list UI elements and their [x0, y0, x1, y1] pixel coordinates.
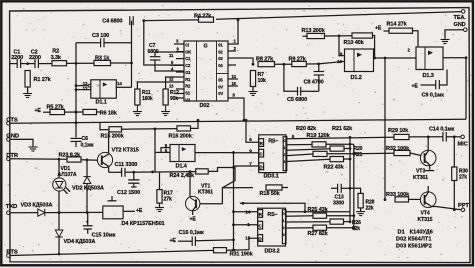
- svg-text:S1: S1: [185, 90, 191, 95]
- transistor VT2 body: [97, 152, 112, 167]
- wire C8 top: [318, 64, 320, 71]
- node R5R6: [75, 111, 78, 114]
- svg-text:C14 0,1мк: C14 0,1мк: [429, 127, 455, 133]
- wire DD3.1 pin9: [234, 152, 259, 154]
- resistor R30 vertical: [452, 167, 457, 181]
- wire D1.2 output: [374, 57, 417, 59]
- svg-text:R23 8,2k: R23 8,2k: [59, 153, 82, 159]
- diode VD3: [38, 209, 45, 216]
- svg-text:3300: 3300: [333, 200, 344, 206]
- wire +E to R14: [384, 30, 390, 32]
- resistor R25: [313, 213, 327, 218]
- svg-text:GND: GND: [454, 22, 466, 28]
- wire R13 left stub: [303, 35, 308, 37]
- svg-text:CTS: CTS: [6, 117, 18, 123]
- wire R5 to R6: [65, 111, 84, 113]
- wire R30 bottom: [453, 181, 455, 210]
- resistor R13: [307, 33, 325, 38]
- resistor R17 vertical: [157, 190, 162, 204]
- svg-text:G: G: [204, 44, 208, 50]
- wire DD3.2 pin14: [234, 211, 258, 213]
- resistor R27: [313, 225, 327, 230]
- ground R17: [159, 206, 161, 208]
- op-amp U D1.4 body: [170, 145, 195, 162]
- resistor R26: [330, 219, 344, 224]
- wire DD3.1 out row5: [287, 159, 330, 161]
- svg-text:13: 13: [83, 81, 88, 86]
- wire R24 right elbow: [208, 168, 233, 172]
- capacitor C16: [191, 236, 193, 246]
- svg-text:C8 4700: C8 4700: [304, 79, 324, 85]
- resistor R23: [67, 157, 81, 162]
- svg-text:+E: +E: [190, 217, 197, 223]
- wire D02 pin r98 down: [228, 98, 244, 120]
- svg-text:R4 27k: R4 27k: [194, 13, 212, 19]
- node B: [130, 62, 133, 65]
- svg-text:R16 200k: R16 200k: [169, 134, 193, 140]
- svg-text:G1: G1: [185, 70, 191, 75]
- transistor VT3 collector: [425, 137, 428, 156]
- svg-text:KT315: KT315: [418, 217, 433, 223]
- svg-text:OK: OK: [185, 49, 191, 54]
- wire R3 to node B: [111, 62, 132, 64]
- wire column A down: [75, 63, 77, 112]
- wire R8 to R9: [275, 63, 292, 65]
- wire +E to R5: [43, 111, 50, 113]
- transistor VT2 emitter: [102, 162, 109, 172]
- transistor VT3 body: [420, 150, 436, 166]
- wire R7 bottom: [252, 87, 254, 91]
- wire D1.4 pin5 stub: [155, 151, 170, 153]
- ic DD3.1 out column: [283, 137, 287, 171]
- svg-text:KT361: KT361: [413, 175, 428, 181]
- resistor R2: [52, 61, 67, 66]
- wire column x385: [384, 58, 386, 200]
- node B2: [317, 63, 320, 66]
- svg-text:C12 1500: C12 1500: [117, 190, 140, 196]
- capacitor C9: [435, 80, 437, 89]
- wire fb down to pin9: [339, 36, 345, 56]
- terminal GND top: [464, 28, 468, 32]
- svg-text:1: 1: [283, 219, 285, 223]
- svg-text:R24 2,45k: R24 2,45k: [170, 173, 196, 179]
- ground top right: [444, 38, 446, 40]
- svg-text:VD3 КД503А: VD3 КД503А: [21, 203, 53, 209]
- svg-text:D4 КР1157ЕН501: D4 КР1157ЕН501: [122, 221, 165, 227]
- svg-text:D1.1: D1.1: [96, 99, 107, 105]
- svg-text:C9 0,1мк: C9 0,1мк: [422, 92, 445, 98]
- svg-text:2200: 2200: [29, 55, 41, 61]
- svg-text:90k: 90k: [170, 96, 178, 102]
- wire D02 pin stub y44: [174, 43, 184, 45]
- resistor R29: [394, 134, 409, 139]
- node A: [75, 62, 78, 65]
- wire DD3.1 out pin5 row: [287, 137, 394, 139]
- svg-text:C15 10мк: C15 10мк: [92, 233, 116, 239]
- wire D4 out: [123, 210, 135, 212]
- wire VD2 column top: [86, 160, 88, 177]
- svg-text:10k: 10k: [258, 78, 266, 84]
- resistor R8: [258, 62, 275, 67]
- terminal TEA: [461, 10, 465, 14]
- wire C13 left stub: [331, 187, 337, 189]
- wire +E to C16: [178, 240, 192, 242]
- diode VD4: [55, 230, 63, 237]
- wire y203 horizontal: [240, 203, 305, 211]
- op-amp U D1.1 body: [91, 80, 117, 98]
- wire DD3.2 out row1: [286, 211, 350, 213]
- wire column x155: [154, 129, 156, 172]
- svg-text:62k: 62k: [352, 226, 360, 232]
- svg-text:C2: C2: [185, 63, 191, 68]
- svg-text:D1.4: D1.4: [176, 164, 188, 170]
- svg-text:6800: 6800: [148, 49, 159, 55]
- wire D02 pin stub y65.3: [170, 64, 184, 66]
- transistor VT4 emitter: [425, 202, 461, 210]
- wire R29 to C14: [409, 136, 443, 138]
- svg-text:2: 2: [283, 153, 285, 157]
- svg-text:R10 40k: R10 40k: [344, 40, 365, 46]
- wire D02 pin stub r65: [228, 64, 236, 66]
- svg-text:R25 43k: R25 43k: [308, 207, 329, 213]
- resistor R10: [352, 33, 373, 38]
- wire D02 pin1 up to rail: [228, 20, 238, 44]
- capacitor C15: [83, 225, 93, 227]
- svg-text:160k: 160k: [142, 96, 153, 102]
- wire DD3.1 pin7: [222, 166, 258, 188]
- svg-text:2200: 2200: [11, 55, 23, 61]
- wire bus x353.8: [353, 144, 355, 227]
- svg-text:TXD: TXD: [6, 204, 17, 210]
- wire D1.4 pin6 stub: [161, 148, 170, 153]
- ic DD3.2 body: [258, 208, 286, 246]
- resistor R3: [94, 60, 111, 65]
- svg-text:D03 К561ИР2: D03 К561ИР2: [396, 244, 432, 250]
- wire R17 top: [159, 172, 161, 190]
- wire R33 to VT4 base: [409, 198, 421, 200]
- svg-text:VT3: VT3: [416, 169, 425, 175]
- wire DD3.2 pin1: [234, 224, 258, 226]
- transistor VT4 collector: [425, 186, 428, 198]
- node C4-R4 junction: [142, 19, 145, 22]
- wire D1.1 upper input: [76, 85, 88, 87]
- ground R7: [252, 90, 254, 92]
- ground C12: [133, 185, 135, 187]
- svg-text:+E: +E: [35, 108, 42, 114]
- wire VT2 emitter to C11: [109, 171, 122, 173]
- wire DD3.1 out row2: [287, 144, 312, 146]
- wire VD4 to RTS: [58, 237, 60, 255]
- ic DD3.1 pin box D: [259, 163, 264, 170]
- svg-text:DD3.2: DD3.2: [265, 248, 280, 254]
- svg-text:C16 0,1мк: C16 0,1мк: [179, 230, 205, 236]
- wire +E to C9: [421, 84, 436, 86]
- wire R16 right up: [191, 120, 199, 128]
- wire R28 bottom: [360, 208, 362, 211]
- wire C8 down: [318, 75, 320, 91]
- resistor R12 vertical: [163, 89, 168, 105]
- resistor R7 vertical: [250, 71, 255, 87]
- svg-text:R6 18k: R6 18k: [100, 111, 118, 117]
- wire C16 to column: [196, 239, 234, 242]
- resistor R15: [109, 127, 122, 132]
- svg-text:D1.3: D1.3: [423, 73, 434, 79]
- wire node B column: [131, 21, 133, 88]
- wire C2 to R2: [38, 63, 52, 65]
- capacitor C6: [71, 137, 82, 139]
- svg-text:0V: 0V: [218, 91, 223, 96]
- wire C9 right up: [440, 70, 448, 86]
- wire D1.3 output: [443, 57, 466, 59]
- transistor VT1 body: [186, 196, 200, 210]
- wire up to DD3.2 pin15: [249, 238, 258, 250]
- svg-text:12: 12: [83, 86, 88, 91]
- svg-text:DTR: DTR: [6, 153, 19, 159]
- wire CTS line corner up to D1.3 out: [465, 58, 467, 119]
- wire C13 to bus: [341, 187, 350, 189]
- resistor R21h: [313, 151, 327, 156]
- capacitor C13: [337, 184, 339, 193]
- wire frame to C1: [10, 63, 17, 65]
- wire GND to ground: [10, 139, 33, 146]
- svg-text:R27 82k: R27 82k: [308, 231, 329, 237]
- led VD1 arrows: [64, 190, 68, 194]
- svg-text:TEA.: TEA.: [454, 15, 467, 21]
- svg-text:R33 100k: R33 100k: [386, 192, 410, 198]
- terminal DTR: [7, 157, 11, 161]
- resistor R6: [83, 109, 97, 114]
- capacitor C12: [128, 179, 139, 181]
- svg-text:R8 27k: R8 27k: [256, 57, 274, 63]
- node A2: [283, 63, 286, 66]
- wire top rail R4 to TEA terminal: [216, 12, 461, 20]
- wire DD3.2 out row2: [286, 215, 313, 217]
- wire R19 to bus: [326, 143, 354, 145]
- wire D02 pin stub y72: [176, 71, 184, 73]
- resistor R32: [394, 150, 410, 155]
- wire R14 right down: [413, 31, 419, 47]
- svg-text:RS–: RS–: [267, 212, 277, 218]
- wire R1 bottom: [27, 87, 29, 93]
- ground R1: [27, 92, 29, 94]
- wire RTS long: [10, 250, 214, 255]
- capacitor C2: [34, 59, 36, 68]
- resistor R24: [196, 169, 209, 174]
- svg-text:D02: D02: [200, 103, 210, 109]
- ic D02 left divider: [196, 41, 198, 101]
- ic D02 body: [184, 41, 228, 101]
- capacitor C14: [442, 132, 444, 142]
- wire D02 pin stub y51.6: [176, 51, 184, 53]
- wire R15 left: [100, 123, 109, 130]
- wire R10 to output col: [373, 36, 375, 59]
- svg-text:DD3.1: DD3.1: [264, 173, 279, 179]
- ic DD3.2 pin box C: [258, 221, 263, 229]
- wire DTR to R23: [10, 158, 67, 161]
- svg-text:VT2 KT315: VT2 KT315: [112, 148, 139, 154]
- resistor R20h: [330, 146, 344, 151]
- wire C1 to C2: [21, 63, 35, 65]
- wire D02 pin stub y82 R11: [137, 82, 184, 89]
- wire R30 top: [453, 137, 455, 167]
- wire R22 to bus: [344, 158, 351, 160]
- wire VD2 to TXD: [86, 184, 88, 213]
- resistor R33: [395, 197, 409, 202]
- wire D02 pin stub y52: [155, 51, 184, 53]
- wire D02 pin stub y77 R12: [166, 77, 184, 89]
- svg-text:+E: +E: [170, 238, 177, 244]
- node VD1 top: [58, 158, 61, 161]
- wire B2 to D1.2 pin10: [319, 61, 345, 64]
- svg-text:+E: +E: [136, 208, 143, 214]
- svg-text:V2: V2: [185, 97, 191, 102]
- wire R27 to bus: [327, 227, 354, 229]
- terminal CTS: [7, 122, 11, 126]
- wire C3 top right: [105, 42, 132, 44]
- diode VD2: [83, 177, 90, 184]
- transistor VT4 body: [420, 192, 436, 208]
- svg-text:CI: CI: [185, 43, 189, 48]
- terminal GND left: [7, 138, 11, 142]
- terminal MIC: [461, 135, 465, 139]
- wire D02 pin C4 col: [144, 21, 184, 65]
- wire VT1 base: [200, 203, 223, 205]
- svg-text:0V: 0V: [218, 84, 223, 89]
- svg-text:D1.2: D1.2: [351, 75, 362, 81]
- wire D02 pin stub y93: [176, 93, 184, 95]
- svg-text:R29 10k: R29 10k: [388, 128, 409, 134]
- svg-text:D02 К564ЛТ1: D02 К564ЛТ1: [396, 237, 432, 243]
- wire D02 pin stub y58: [176, 58, 184, 60]
- svg-text:R1 27k: R1 27k: [34, 77, 52, 83]
- wire R26 to bus: [344, 221, 351, 223]
- wire VT1 base up to R18: [222, 188, 253, 204]
- wire C3 top left: [76, 42, 100, 44]
- svg-text:R3 1k: R3 1k: [95, 56, 110, 62]
- svg-text:3: 3: [283, 233, 285, 237]
- svg-text:R20: R20: [354, 146, 363, 152]
- svg-text:VD4 КД503А: VD4 КД503А: [64, 239, 96, 245]
- capacitor C7: [150, 56, 161, 58]
- wire bus to R32: [354, 152, 394, 155]
- ic DD3.1 pin box R: [259, 139, 264, 147]
- wire C11 to R24 row: [125, 171, 196, 174]
- svg-text:+: +: [86, 219, 89, 224]
- svg-text:C5 6800: C5 6800: [287, 97, 307, 103]
- svg-text:KT361: KT361: [198, 190, 213, 196]
- ground R28: [360, 210, 362, 212]
- resistor R18: [266, 185, 282, 190]
- svg-text:R31 190k: R31 190k: [230, 251, 254, 257]
- svg-text:0: 0: [283, 212, 285, 216]
- terminal PPT: [461, 208, 465, 212]
- ground left: [32, 145, 34, 147]
- wire DD3.2 out row3: [286, 221, 330, 223]
- wire node R5R6 down to C6: [75, 112, 77, 137]
- resistor R5: [50, 109, 65, 114]
- wire bus x350: [349, 137, 351, 221]
- wire R18 right: [282, 187, 288, 189]
- wire DD3.2 out row4: [286, 227, 313, 229]
- wire R15 to R16: [122, 128, 178, 131]
- ic DD3.1 pin box C: [259, 149, 264, 157]
- svg-text:R15 200k: R15 200k: [101, 134, 125, 140]
- wire C12 column: [133, 172, 135, 180]
- wire VD3 to D4: [45, 211, 103, 213]
- wire C14 to MIC: [446, 136, 461, 138]
- capacitor C8: [314, 71, 324, 73]
- wire C6 bottom stub: [75, 142, 77, 148]
- svg-text:R14 27k: R14 27k: [387, 21, 408, 27]
- svg-text:10: 10: [337, 59, 342, 64]
- wire top rail C4 junction to R4: [144, 19, 199, 22]
- wire C12 bottom: [133, 183, 135, 185]
- wire R9 to D1.2: [306, 63, 318, 65]
- terminal TXD: [7, 211, 11, 215]
- capacitor C5: [297, 87, 299, 96]
- svg-text:27k: 27k: [164, 197, 172, 203]
- capacitor C3: [100, 38, 102, 47]
- scan speckle texture: [301, 9, 304, 12]
- svg-text:PPT: PPT: [458, 203, 469, 209]
- svg-text:АЛ107А: АЛ107А: [58, 172, 77, 178]
- ground stray mark: [111, 196, 113, 201]
- wire GND terminal to ground: [445, 30, 464, 38]
- svg-text:RTS: RTS: [6, 250, 18, 256]
- wire D02 pin stub r79: [228, 78, 238, 80]
- led VD1 body: [53, 178, 66, 191]
- wire VD1 to VD4: [58, 191, 60, 230]
- svg-text:R2: R2: [52, 48, 59, 54]
- node mid R15R16: [154, 127, 157, 130]
- svg-text:R9 27k: R9 27k: [289, 56, 307, 62]
- svg-text:R7: R7: [258, 72, 265, 78]
- resistor R9: [292, 61, 307, 66]
- wire R28 top: [350, 188, 361, 193]
- wire DD3.1 out row3: [287, 149, 330, 151]
- svg-text:R32 100k: R32 100k: [386, 146, 410, 152]
- wire DD3.1 out row4: [287, 154, 313, 156]
- svg-text:15: 15: [245, 236, 250, 241]
- svg-text:2: 2: [283, 226, 285, 230]
- transistor VT1 collector join: [190, 198, 196, 202]
- capacitor C4: [129, 16, 131, 25]
- wire VT1 collector: [189, 172, 191, 197]
- ic DD3.2 pin box R: [258, 210, 263, 218]
- wire D1.4 output: [195, 152, 234, 154]
- wire column x233.5: [233, 151, 235, 250]
- resistor R22: [330, 157, 344, 162]
- ic DD3.1 body: [259, 135, 286, 173]
- node R1 tap: [26, 62, 29, 65]
- capacitor C11: [121, 168, 123, 177]
- terminal RTS: [7, 254, 11, 258]
- svg-text:C4 6800: C4 6800: [102, 19, 122, 25]
- svg-text:14: 14: [117, 81, 122, 86]
- wire C5 row left: [284, 64, 298, 91]
- resistor R4: [199, 17, 214, 22]
- wire C5 row right: [301, 90, 319, 92]
- transistor VT2 collector: [102, 132, 109, 158]
- ground R11: [136, 110, 138, 112]
- wire D02 pin stub y89: [176, 88, 184, 90]
- svg-text:C11 3300: C11 3300: [115, 162, 138, 168]
- wire R31 right: [227, 249, 250, 251]
- wire D02 pin stub y98: [176, 97, 184, 99]
- node R7 top: [252, 63, 255, 66]
- wire TXD to C15: [87, 213, 89, 226]
- svg-text:GND: GND: [6, 134, 19, 140]
